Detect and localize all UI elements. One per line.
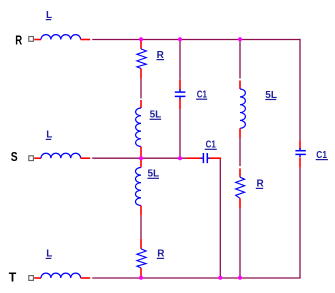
junction node R-141 (139, 37, 143, 41)
resistor R (top, x141) (137, 40, 146, 79)
capacitor C1 (x300) (295, 140, 305, 168)
wire x240 upper (239, 40, 241, 79)
wire x240 middle (239, 138, 241, 166)
label 5L (x240) (265, 90, 277, 101)
inductor L (R phase) (34, 35, 90, 40)
svg-text:T: T (9, 271, 17, 285)
terminal S (29, 156, 34, 161)
label R (x240) (256, 179, 265, 190)
inductor 5L (x240) (240, 81, 245, 139)
inductor L (S phase) (34, 153, 90, 158)
label L (T phase) (46, 249, 53, 260)
wire x180 upper (179, 40, 181, 80)
inductor 5L (x141 lower) (136, 158, 142, 216)
junction node T-240 (238, 276, 242, 280)
label T (input) (9, 271, 17, 285)
svg-text:S: S (11, 150, 18, 164)
wire x240 lower (239, 208, 241, 278)
junction node R-240 (238, 37, 242, 41)
label C1 (x180) (196, 90, 207, 101)
junction node S-180 (178, 156, 182, 160)
label R (bottom resistor) (157, 249, 166, 260)
capacitor C1 (S row, horizontal) (186, 153, 220, 163)
junction node T-220 (218, 276, 222, 280)
resistor R (x240) (236, 168, 245, 208)
terminal R (29, 37, 34, 42)
wire S row (92, 157, 186, 159)
wire right column upper (299, 39, 301, 140)
wire x141 upper (140, 79, 142, 99)
label 5L (x141 lower) (147, 169, 159, 180)
inductor L (T phase) (34, 273, 90, 278)
wire bottom row (92, 277, 301, 279)
inductor 5L (x141 upper) (136, 100, 141, 158)
wire x141 lower (140, 216, 142, 239)
wire x180 lower (179, 109, 181, 158)
junction node T-141 (139, 276, 143, 280)
svg-text:R: R (15, 34, 22, 48)
label 5L (x141 upper) (150, 110, 162, 121)
resistor R (bottom, x141) (137, 239, 146, 278)
label L (R phase) (46, 10, 52, 21)
wire x220 column (219, 159, 221, 278)
label L (S phase) (46, 130, 53, 141)
label R (input) (15, 34, 22, 48)
terminal T (29, 276, 34, 281)
capacitor C1 (x180) (175, 80, 186, 109)
label R (top resistor) (157, 50, 165, 61)
wire right column lower (299, 168, 301, 278)
label S (input) (11, 150, 18, 164)
junction node S-141 (139, 156, 143, 160)
label C1 (x300) (316, 150, 328, 161)
junction node R-180 (178, 37, 182, 41)
wire R row (92, 39, 300, 41)
label C1 (S row) (205, 140, 217, 151)
